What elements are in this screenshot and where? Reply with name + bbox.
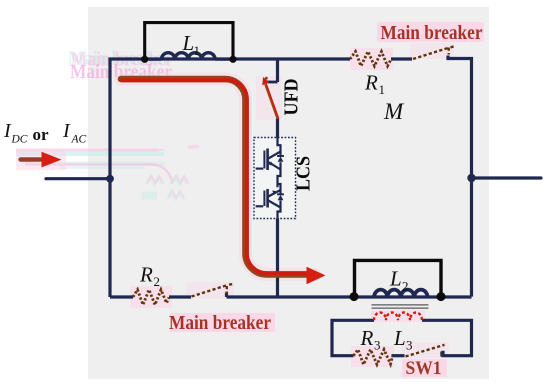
svg-text:L: L — [182, 31, 195, 55]
svg-text:M: M — [383, 99, 405, 124]
svg-text:2: 2 — [154, 274, 161, 289]
svg-text:L: L — [389, 267, 402, 291]
svg-text:1: 1 — [194, 43, 201, 58]
svg-text:R: R — [360, 326, 374, 350]
svg-text:R: R — [364, 71, 378, 95]
svg-text:2: 2 — [402, 279, 409, 294]
svg-text:Main breaker: Main breaker — [169, 312, 271, 334]
svg-text:AC: AC — [71, 134, 87, 146]
svg-text:L: L — [393, 326, 406, 350]
svg-text:SW1: SW1 — [406, 358, 442, 379]
svg-text:3: 3 — [374, 338, 381, 353]
svg-text:I: I — [62, 120, 71, 142]
svg-text:UFD: UFD — [281, 79, 303, 116]
svg-text:R: R — [139, 263, 153, 287]
svg-text:1: 1 — [379, 82, 386, 97]
svg-text:3: 3 — [406, 338, 413, 353]
svg-text:DC: DC — [11, 134, 28, 146]
svg-text:Main breaker: Main breaker — [381, 22, 483, 44]
svg-text:LCS: LCS — [293, 156, 315, 191]
svg-text:or: or — [33, 125, 50, 144]
